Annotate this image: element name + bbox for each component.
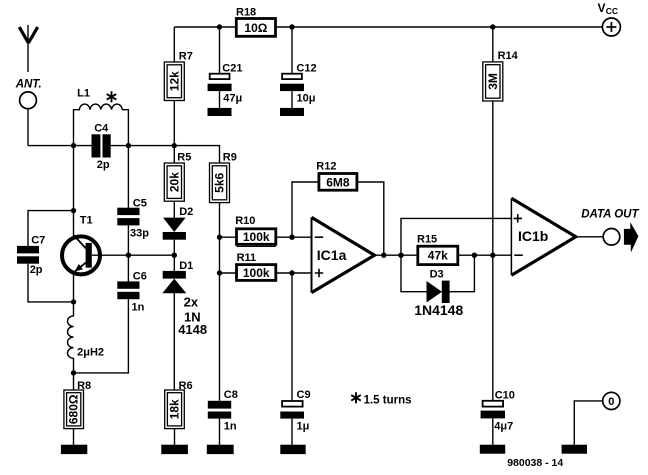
node feedback junction [381,253,386,258]
svg-text:IC1a: IC1a [317,247,347,263]
asterisk mark for L1 [107,91,117,102]
resistor R8 [64,373,84,445]
wire emitter down [73,275,75,302]
resistor R7 [164,62,184,101]
svg-text:12k: 12k [168,71,182,91]
wire C21 top [219,27,221,74]
node R11 left junction [217,270,222,275]
svg-text:980038 - 14: 980038 - 14 [507,457,563,469]
node C7 top junction [71,208,76,213]
svg-text:680Ω: 680Ω [67,394,81,424]
svg-text:C5: C5 [133,198,147,210]
svg-text:10μ: 10μ [297,93,316,105]
capacitor C21 [208,74,232,91]
node R15-D3 right junction [472,253,477,258]
node base junction [126,253,131,258]
svg-text:R5: R5 [177,152,191,164]
antenna symbol [19,25,37,72]
wire C12 top [291,27,293,74]
svg-text:D3: D3 [430,269,444,281]
capacitor C12 [280,74,304,91]
wire C7 bottom loop [28,264,74,302]
node top rail R14 junction [490,24,495,29]
svg-text:6M8: 6M8 [326,175,350,189]
svg-text:C10: C10 [495,390,515,402]
wire R14 top [492,27,494,62]
svg-text:47μ: 47μ [223,93,242,105]
wire C5 to base row [127,225,129,255]
wire feedback R12 [292,182,384,255]
wire D1 to R6 [173,293,175,390]
svg-text:1n: 1n [224,421,237,433]
node top rail C12 junction [289,24,294,29]
output arrow [624,222,639,253]
svg-text:L1: L1 [77,88,90,100]
svg-text:18k: 18k [168,399,182,419]
wire top rail [174,26,602,28]
wire C10 bottom [492,418,494,444]
ground (R6) [161,445,188,454]
wire R7 bottom [173,101,175,146]
svg-text:R8: R8 [77,380,91,392]
value 2x 1N 4148 [178,294,207,337]
node D1-D2 junction [172,253,177,258]
wire C9 bottom [291,419,293,445]
svg-text:3M: 3M [486,73,500,90]
terminal DATA OUT [603,229,620,246]
svg-text:C4: C4 [94,123,109,135]
wire 0 terminal to ground [574,401,602,445]
wire D2 to node [173,240,175,271]
svg-text:C21: C21 [222,63,242,75]
wire main row left [28,145,92,147]
svg-text:C8: C8 [224,389,238,401]
svg-text:1μ: 1μ [297,421,310,433]
svg-text:R9: R9 [223,152,237,164]
wire R10 right [276,236,312,238]
svg-text:100k: 100k [243,230,270,244]
svg-text:T1: T1 [80,215,93,227]
node R15-D3 left junction [398,253,403,258]
wire C21 bottom [219,91,221,108]
svg-text:4148: 4148 [178,322,207,337]
ground (C8) [207,445,234,454]
resistor R18 [236,19,275,37]
wire R7 top [173,27,175,62]
capacitor C8 [208,401,231,419]
capacitor C7 [17,246,39,264]
svg-text:2p: 2p [97,159,110,171]
terminal Vcc [602,18,620,36]
node IC1a non-inverting input junction [289,270,294,275]
wire R11 left [220,272,237,274]
wire R15 right [458,254,512,256]
svg-text:1N4148: 1N4148 [414,302,463,318]
node main-L1 right junction [126,143,131,148]
wire main row right to R9 [111,146,220,163]
svg-text:10Ω: 10Ω [244,21,267,35]
capacitor C9 [280,401,304,419]
svg-text:47k: 47k [428,249,448,263]
svg-text:R12: R12 [316,161,336,173]
svg-text:ANT.: ANT. [15,79,42,91]
svg-text:4μ7: 4μ7 [494,421,513,433]
svg-text:R11: R11 [237,252,257,264]
op-amp IC1a [312,217,375,292]
svg-text:C6: C6 [133,271,147,283]
wire R11 right [276,272,312,274]
ground (C10) [480,445,505,454]
svg-text:DATA OUT: DATA OUT [581,209,639,221]
note asterisk 1.5 turns [351,392,411,406]
svg-text:0: 0 [608,396,614,408]
node emitter junction [71,299,76,304]
svg-text:1.5 turns: 1.5 turns [364,395,412,407]
resistor R15 [418,246,458,264]
resistor R10 [237,229,276,247]
svg-text:IC1b: IC1b [518,228,548,244]
wire R14 to C10 [492,101,494,401]
node R10 left junction [217,235,222,240]
svg-text:2p: 2p [30,264,43,276]
diode D2 [163,218,186,240]
svg-text:C12: C12 [296,63,316,75]
resistor R11 [237,265,276,281]
node R8 top junction [71,370,76,375]
wire C8 bottom [219,419,221,445]
wire C9 column [291,273,293,401]
node IC1a inverting input junction [289,235,294,240]
wire C12 bottom [291,91,293,108]
capacitor C5 [117,208,139,226]
capacitor C10 [481,401,505,419]
capacitor C4 [92,134,111,157]
svg-text:2x: 2x [184,294,199,309]
svg-text:V: V [598,1,606,15]
diode D1 [162,271,186,293]
terminal ANT [20,92,37,109]
inductor L1 [74,104,129,146]
svg-text:5k6: 5k6 [213,172,227,192]
wire R9 bottom column [219,203,221,401]
svg-text:1n: 1n [132,302,145,314]
node top rail C21 junction [217,24,222,29]
wire R6 bottom [174,429,176,445]
label Vcc [598,1,618,16]
op-amp IC1b [511,198,575,275]
wire D3 loop right [450,255,475,292]
ground (0 terminal) [562,445,587,454]
wire base row to C6 [127,255,129,281]
wire IC1b output [576,236,603,238]
svg-text:R6: R6 [179,380,193,392]
wire D3 loop left [401,255,427,292]
diode D3 [427,281,450,303]
wire R5 to D2 [173,201,175,217]
node main-L1 left junction [71,143,76,148]
wire C7 top loop [28,211,74,246]
transistor T1 [62,235,100,274]
svg-text:R15: R15 [417,234,437,246]
wire base row [92,254,175,256]
svg-text:C9: C9 [297,389,311,401]
ground (C21) [208,108,232,116]
svg-text:100k: 100k [243,266,270,280]
wire C6 bottom loop [74,299,129,373]
svg-text:R14: R14 [498,50,519,62]
svg-text:R7: R7 [179,51,193,63]
svg-text:R18: R18 [236,7,256,19]
ground (C9) [280,445,305,454]
inductor 2uH2 [67,302,73,373]
wire IC1a output [375,254,418,256]
resistor R6 [165,390,185,429]
resistor R5 [164,163,184,201]
capacitor C6 [117,281,139,299]
resistor R12 [319,174,357,191]
svg-text:C7: C7 [31,235,45,247]
wire R10 left [220,236,237,238]
resistor R14 [483,62,503,101]
svg-text:2μH2: 2μH2 [77,347,104,359]
wire collector column [73,146,75,237]
wire C5/C6 column top [127,146,129,208]
node R14-C10 junction [490,253,495,258]
wire to IC1b non-inverting input [401,218,511,255]
svg-text:CC: CC [606,6,618,16]
svg-text:D1: D1 [179,260,193,272]
wire ANT to main row [27,109,29,146]
svg-text:33p: 33p [130,228,149,240]
svg-text:20k: 20k [168,172,182,192]
svg-text:R10: R10 [235,215,255,227]
ground (C12) [280,108,304,116]
wire R5 top [173,146,175,163]
terminal 0 [603,392,620,409]
svg-text:D2: D2 [179,206,193,218]
resistor R9 [210,163,230,203]
node main-R5 junction [172,143,177,148]
ground (R8) [61,445,87,454]
